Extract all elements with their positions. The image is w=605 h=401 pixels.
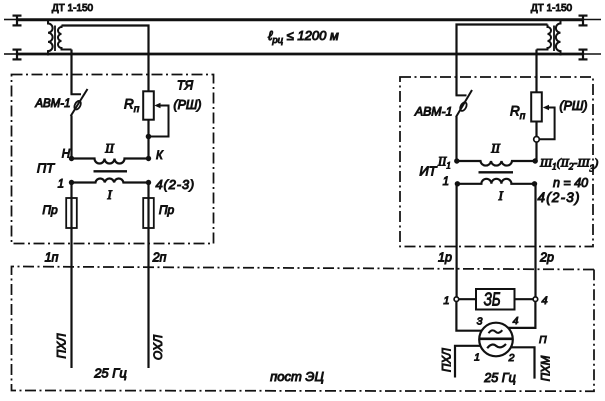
svg-text:АВМ-1: АВМ-1 [414, 105, 453, 119]
breaker AVM-1 right: blade [456, 90, 472, 117]
node 1 dot PT [69, 180, 74, 185]
transformer PT winding II [72, 159, 149, 164]
svg-text:1: 1 [474, 352, 480, 364]
node N dot [69, 156, 74, 161]
node 4 dot PT [146, 180, 151, 185]
svg-text:3: 3 [477, 316, 483, 328]
svg-text:Пр: Пр [42, 203, 58, 217]
node 1 dot IT [455, 181, 460, 186]
choke transformer DT1 (left) primary winding [48, 19, 53, 56]
wire converter terminal 2 to PHM [510, 347, 534, 378]
svg-text:ПХМ: ПХМ [541, 355, 553, 381]
breaker AVM-1 left: loop [73, 100, 82, 111]
wire converter terminal 1 to PHL [455, 346, 481, 378]
wire IT node4 down to ZB [534, 184, 536, 297]
converter P circle [479, 323, 513, 357]
svg-text:2: 2 [508, 352, 515, 364]
svg-text:4: 4 [542, 295, 548, 307]
wire Rp bottom to node K [147, 120, 149, 159]
choke transformer DT2 secondary winding [537, 25, 552, 50]
breaker AVM-1 right: loop [459, 101, 468, 112]
breaker AVM-1 left: fixed contact [72, 88, 82, 94]
wire node1 to line PHL [70, 184, 72, 368]
fuse Pr left [66, 198, 77, 228]
wire node4 to line OHL [147, 184, 149, 368]
svg-text:(РШ): (РШ) [173, 98, 201, 112]
svg-text:П: П [539, 334, 547, 346]
svg-text:ТЯ: ТЯ [177, 79, 194, 93]
svg-text:ПТ: ПТ [37, 161, 55, 176]
svg-text:Н: Н [62, 149, 71, 161]
svg-text:1: 1 [58, 179, 64, 191]
breaker AVM-1 left: blade [71, 89, 88, 116]
junction dot Rp left [146, 134, 152, 140]
wire ZB-4 to converter terminal 4 [508, 302, 535, 328]
label TYa (RSh) left [173, 79, 201, 113]
svg-text:25 Гц: 25 Гц [93, 366, 127, 381]
filter ZB leads [459, 298, 476, 300]
svg-text:Пр: Пр [159, 203, 175, 217]
wire DT2 secondary bottom to Rp right [535, 50, 537, 93]
svg-text:1п: 1п [45, 251, 59, 265]
svg-text:(РШ): (РШ) [559, 99, 587, 113]
choke transformer DT1 core [54, 26, 56, 52]
choke transformer DT2 (right) primary winding [556, 19, 561, 56]
wire IT node1 down to ZB [456, 184, 458, 297]
wire DT1 secondary bottom to AVM-1 [70, 50, 72, 95]
choke transformer DT1 secondary winding [58, 26, 71, 50]
choke transformer DT2 core [553, 26, 555, 52]
wire AVM-1 right to node II1 [455, 117, 457, 162]
wire ZB-1 to converter terminal 3 [456, 302, 481, 331]
insulated joint bottom-right [579, 49, 588, 61]
filter ZB box [476, 289, 515, 310]
svg-text:I: I [106, 187, 112, 202]
transformer IT winding I [457, 179, 534, 184]
svg-text:2р: 2р [539, 251, 554, 265]
node II1 dot [454, 158, 459, 163]
svg-text:1: 1 [443, 295, 449, 307]
svg-text:ДТ 1-150: ДТ 1-150 [52, 3, 94, 14]
svg-text:ИТ: ИТ [419, 164, 437, 179]
converter P divider [480, 337, 513, 340]
insulated joint top-left [13, 15, 22, 27]
svg-text:1: 1 [443, 176, 449, 188]
transformer PT winding I [72, 178, 149, 182]
svg-text:II: II [104, 141, 114, 156]
right relay cabinet box [400, 77, 593, 247]
rail top [4, 19, 601, 21]
wire DT1 secondary top to Rp [62, 26, 149, 92]
wire AVM-1 to node N [70, 116, 72, 159]
left relay cabinet box [12, 75, 214, 244]
wire DT2 secondary top to AVM-1 right [457, 25, 548, 96]
svg-text:ДТ 1-150: ДТ 1-150 [531, 3, 573, 14]
svg-text:ПХЛ: ПХЛ [441, 348, 453, 372]
svg-text:ЗБ: ЗБ [484, 289, 501, 310]
svg-text:ПХЛ: ПХЛ [55, 333, 69, 359]
terminal circle 1 ZB [454, 297, 459, 302]
transformer IT core [479, 171, 514, 173]
wire Rp right bottom to node III1 [535, 122, 537, 162]
svg-text:n = 40: n = 40 [553, 176, 588, 190]
junction ring Rp right [534, 137, 540, 143]
Rp left wiper arrow [154, 103, 160, 108]
svg-text:1р: 1р [438, 251, 452, 265]
svg-text:пост ЭЦ: пост ЭЦ [270, 369, 324, 384]
converter P lower tilde [487, 344, 506, 348]
insulated joint bottom-left [13, 49, 22, 61]
svg-text:I: I [498, 188, 504, 203]
resistor Rp right [531, 92, 542, 121]
node K dot [146, 156, 151, 161]
post EC box [12, 267, 595, 392]
terminal circle 4 ZB [533, 297, 538, 302]
svg-text:ОХЛ: ОХЛ [151, 334, 165, 360]
svg-text:4: 4 [513, 315, 519, 327]
transformer IT winding II [457, 161, 535, 166]
svg-text:АВМ-1: АВМ-1 [34, 98, 70, 110]
breaker AVM-1 right: fixed contact [457, 89, 467, 95]
svg-text:4(2-3): 4(2-3) [156, 177, 195, 192]
converter P upper tilde [489, 330, 503, 333]
transformer PT core [94, 170, 128, 172]
fuse Pr right [143, 198, 154, 228]
rail bottom [4, 53, 601, 55]
svg-text:II: II [490, 141, 500, 156]
svg-text:2п: 2п [152, 251, 167, 265]
svg-text:25 Гц: 25 Гц [483, 371, 516, 385]
Rp right wiper arrow [543, 105, 549, 110]
resistor Rp left [143, 91, 154, 119]
node III1 dot [533, 158, 538, 163]
insulated joint top-right [579, 15, 588, 27]
node 4 dot IT [532, 181, 537, 186]
svg-text:4(2-3): 4(2-3) [538, 190, 581, 205]
